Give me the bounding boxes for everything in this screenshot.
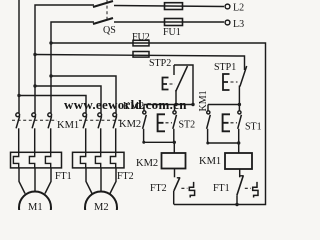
KM1 main contact pole 2 xyxy=(32,113,36,117)
ST1 top terminal wire xyxy=(238,105,240,112)
FT1 heater element 3 xyxy=(45,152,50,168)
wire FT2 to motor M2 phase 2 xyxy=(100,168,102,192)
svg-text:KM2: KM2 xyxy=(123,101,144,112)
FT2 contact blade xyxy=(174,178,180,191)
pushbutton STP2 normally-closed xyxy=(163,65,194,105)
KM2 pole linkage dashed xyxy=(79,119,122,121)
svg-text:L3: L3 xyxy=(233,19,244,30)
fuse FU1 b xyxy=(165,19,183,26)
ST2 blade xyxy=(173,115,177,129)
svg-text:ST1: ST1 xyxy=(245,122,262,133)
wire tap bus3 to KM2 pole3 xyxy=(51,76,116,113)
junction ST1 bottom node xyxy=(237,141,240,144)
FT1 heater element 1 xyxy=(13,152,18,168)
contact KM1 auxiliary normally-open xyxy=(207,111,211,143)
wire FT2 to motor M2 phase 1 xyxy=(86,168,92,194)
wire to L2 terminal xyxy=(114,6,224,7)
svg-text:KM1: KM1 xyxy=(199,156,221,167)
STP1 contact blade xyxy=(240,66,247,87)
coil KM1 xyxy=(225,153,252,169)
KM1 aux blade xyxy=(207,115,211,129)
wire node to KM2 aux xyxy=(143,105,145,112)
KM2 main contact pole 2 xyxy=(98,113,102,117)
contact FT1 thermal normally-closed xyxy=(237,176,258,205)
wire control line B xyxy=(35,55,245,71)
switch QS blade 2 xyxy=(93,18,113,24)
switch QS blade 1 xyxy=(93,1,113,7)
ST1 actuator E xyxy=(223,114,230,131)
junction bus2 / tap to KM2 pole2 xyxy=(33,84,36,87)
svg-text:FT1: FT1 xyxy=(213,183,230,194)
wire L3 bus xyxy=(51,22,94,113)
wire node line motor2 control xyxy=(144,104,193,106)
STP2 fixed contact left leg xyxy=(173,65,175,75)
junction bus3 / control line A xyxy=(49,41,52,44)
STP1 actuator E xyxy=(223,74,230,90)
FT1 blade top cap xyxy=(240,175,244,177)
KM1 aux terminal circle xyxy=(207,111,210,114)
svg-text:M2: M2 xyxy=(94,202,109,210)
svg-text:KM1: KM1 xyxy=(57,120,79,131)
thermal relay FT2 heater box xyxy=(73,152,125,168)
wire coil KM1 to FT1 contact xyxy=(239,169,241,177)
STP2 contact blade xyxy=(176,66,188,92)
thermal relay FT1 heater box xyxy=(11,152,62,168)
FT1 trip link dashed xyxy=(245,187,251,189)
svg-text:FT2: FT2 xyxy=(150,183,167,194)
FT2 blade top cap xyxy=(177,177,180,179)
STP2 bottom terminal wire xyxy=(175,90,177,105)
STP2 actuator E xyxy=(163,78,169,90)
coil KM2 xyxy=(162,153,186,169)
junction ST2 bottom node xyxy=(173,141,176,144)
FT1 lower wire xyxy=(236,195,238,204)
svg-text:ST2: ST2 xyxy=(179,120,196,131)
svg-text:FT2: FT2 xyxy=(117,171,134,182)
ST1 blade xyxy=(238,115,242,129)
contactor KM2 main contacts xyxy=(79,113,122,152)
wire tap bus2 to KM2 pole2 xyxy=(35,86,101,113)
STP2 top bar and right leg wire xyxy=(174,65,193,105)
KM2 aux terminal circle xyxy=(143,111,146,114)
wire L2 bus xyxy=(35,5,94,113)
svg-text:FT1: FT1 xyxy=(55,171,72,182)
ST2 lower wire xyxy=(173,129,175,143)
ST1 terminal circle xyxy=(238,111,241,114)
wire FT1 to motor M1 phase 1 xyxy=(19,168,25,194)
FT2 heater element 2 xyxy=(95,152,100,168)
junction KM2 aux bottom corner xyxy=(142,141,145,144)
fuse FU1 a xyxy=(165,3,183,10)
wire control line A xyxy=(51,43,266,205)
FT2 trip link dashed xyxy=(181,187,187,189)
svg-text:STP1: STP1 xyxy=(214,62,236,73)
STP1 actuator link dashed xyxy=(231,81,238,83)
contactor KM1 main contacts xyxy=(12,113,57,152)
wire L1 bus xyxy=(18,0,20,113)
svg-text:STP2: STP2 xyxy=(149,58,171,69)
junction bus1 / tap to KM2 pole1 xyxy=(17,94,20,97)
svg-text:KM1: KM1 xyxy=(198,90,209,111)
svg-text:FU2: FU2 xyxy=(132,32,150,43)
junction STP2 right leg at node xyxy=(191,103,194,106)
KM1 main contact pole 3 xyxy=(48,113,52,117)
junction STP1 output node xyxy=(238,103,241,106)
FT1 heater element 2 xyxy=(29,152,34,168)
KM1 main contact pole 1 xyxy=(16,113,20,117)
wire to L3 terminal xyxy=(114,21,224,23)
FT1 contact blade xyxy=(237,176,243,196)
motor M2 circle xyxy=(85,192,117,224)
switch QS linkage xyxy=(106,0,108,20)
wire node line motor1 control xyxy=(208,104,239,106)
ST1 actuator link dashed xyxy=(231,122,238,124)
motor M1 circle xyxy=(19,192,51,224)
pushbutton STP1 normally-closed xyxy=(223,66,247,105)
svg-text:KM2: KM2 xyxy=(136,158,158,169)
ST2 actuator link dashed xyxy=(166,122,173,124)
KM2 aux blade xyxy=(143,115,147,129)
FT1 trip hook xyxy=(253,182,258,198)
ST2 top terminal wire xyxy=(174,105,176,112)
wire node to KM1 aux xyxy=(207,105,209,112)
wire FT1 to motor M1 phase 2 xyxy=(34,168,36,192)
junction STP2 output node xyxy=(174,103,177,106)
KM1 aux lower wire xyxy=(207,129,209,143)
wire tap bus1 to KM2 pole1 xyxy=(19,96,86,114)
ST2 terminal circle xyxy=(173,111,176,114)
junction bus3 / tap to KM2 pole3 xyxy=(49,74,52,77)
svg-text:QS: QS xyxy=(103,25,116,36)
KM2 main contact pole 3 xyxy=(113,113,117,117)
ST2 actuator E xyxy=(158,114,165,131)
ST1 lower wire xyxy=(238,129,240,143)
FT2 trip hook xyxy=(189,182,194,198)
svg-text:M1: M1 xyxy=(28,202,43,210)
wire bottom of parallel branch m1 xyxy=(208,143,239,153)
svg-text:KM2: KM2 xyxy=(119,119,141,130)
FT2 lower wire xyxy=(173,191,175,205)
wire coil KM2 to FT2 contact xyxy=(174,169,176,178)
fuse FU2 a xyxy=(133,40,149,46)
pushbutton ST1 normally-open start xyxy=(223,105,242,144)
svg-text:L2: L2 xyxy=(233,3,244,14)
wire bottom of parallel branch m2 xyxy=(144,142,175,153)
wire FT2 to motor M2 phase 3 xyxy=(110,168,116,194)
STP2 actuator link dashed xyxy=(170,83,176,85)
junction bus2 / control line B xyxy=(33,53,36,56)
KM2 aux lower wire xyxy=(143,129,145,142)
STP1 bottom terminal wire xyxy=(238,86,240,105)
FT2 heater element 3 xyxy=(110,152,115,168)
junction FT1 at bottom rail xyxy=(235,203,238,206)
junction KM1 aux bottom corner xyxy=(206,142,209,145)
fuse FU2 b xyxy=(133,52,149,58)
terminal L3 xyxy=(225,20,230,25)
contact KM2 auxiliary normally-open xyxy=(143,111,147,142)
FT2 heater element 1 xyxy=(80,152,85,168)
KM2 main contact pole 1 xyxy=(83,113,87,117)
terminal L2 xyxy=(225,4,230,9)
contact FT2 thermal normally-closed xyxy=(174,178,195,205)
svg-text:FU1: FU1 xyxy=(163,27,181,38)
pushbutton ST2 normally-open start xyxy=(158,105,177,143)
KM1 pole linkage dashed xyxy=(12,119,57,121)
wire FT1 to motor M1 phase 3 xyxy=(45,168,51,194)
